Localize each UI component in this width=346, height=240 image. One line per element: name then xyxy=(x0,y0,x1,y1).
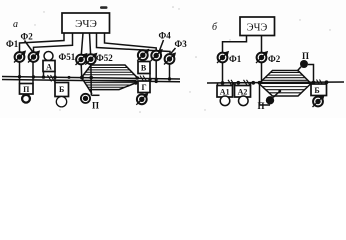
box A xyxy=(43,61,55,72)
svg-text:А: А xyxy=(46,63,52,72)
wire A box left wall to axis xyxy=(43,72,45,78)
svg-text:Ф51: Ф51 xyxy=(59,52,76,62)
photodetector F1 xyxy=(14,50,26,62)
scan speckle noise xyxy=(34,6,330,113)
connector ticks between V and G boxes xyxy=(140,76,147,83)
wire F52 down through mixer to lamp P xyxy=(90,64,92,95)
indicator ring under P box xyxy=(22,95,30,103)
svg-text:Ф2: Ф2 xyxy=(268,54,281,64)
box B (figure b) xyxy=(311,84,327,96)
wire leg4 to F52 xyxy=(90,33,91,55)
block ЭЧЭ (figure a) xyxy=(62,13,110,33)
wire leg2 to F2 xyxy=(34,33,73,52)
connector ticks on axis before B (figure b) xyxy=(317,80,324,86)
lamp P top (figure b) xyxy=(300,60,308,68)
svg-text:П: П xyxy=(92,101,99,111)
wire P box walls to axis xyxy=(19,62,21,84)
indicator detector under box B (figure b) xyxy=(313,95,325,107)
pointer from F4 label xyxy=(160,40,164,51)
junction dot on mixer bottom edge (figure b) xyxy=(278,90,281,93)
box B (figure a) xyxy=(55,83,69,97)
wire leg to F1 (figure b) xyxy=(223,36,247,53)
connector ticks on axis between A and B boxes xyxy=(48,75,55,82)
indicator circle of box A xyxy=(44,52,53,61)
optical axis (figure b) xyxy=(207,82,344,83)
svg-text:Ф1: Ф1 xyxy=(229,54,242,64)
wire F4 down to axis xyxy=(155,60,157,81)
mixer bundle (figure b) xyxy=(259,71,311,97)
wire leg5 to F3 xyxy=(97,33,171,55)
svg-text:П: П xyxy=(258,101,265,111)
svg-text:П: П xyxy=(23,85,30,94)
indicator circle under A2 xyxy=(239,96,249,106)
box P (figure a) xyxy=(20,84,34,95)
photodetector F3 xyxy=(164,52,176,64)
indicator detector under box G xyxy=(136,93,148,105)
box A1 (figure b) xyxy=(217,86,233,98)
photodetector F4 xyxy=(151,49,163,61)
wire lamp P bottom to mixer bottom edge xyxy=(273,92,280,98)
photodetector F51 xyxy=(76,53,88,65)
pointer from F2 label xyxy=(25,41,33,52)
svg-text:Ф52: Ф52 xyxy=(96,53,113,63)
box G (figure a) xyxy=(138,81,150,93)
svg-text:Б: Б xyxy=(59,85,64,94)
lamp P bottom (figure b) xyxy=(266,96,274,104)
wire V box right wall to axis xyxy=(149,74,151,80)
wire leg6 to F4 xyxy=(105,33,157,51)
wire lamp P top to axis xyxy=(308,65,314,83)
svg-text:Ф1: Ф1 xyxy=(6,39,19,49)
optical axis upper line (figure a) xyxy=(2,77,180,80)
wire A1 wall stubs to axis xyxy=(217,83,219,86)
svg-text:Ф2: Ф2 xyxy=(21,32,34,42)
scan smudge artifact xyxy=(100,6,108,9)
wire axis down to lamp P bottom xyxy=(260,84,271,106)
wire leg1 to F1 xyxy=(20,33,65,52)
svg-text:А1: А1 xyxy=(220,88,230,97)
indicator detector above box V xyxy=(137,49,149,61)
pointer from F3 label xyxy=(171,48,176,53)
svg-text:В: В xyxy=(141,63,147,72)
svg-text:Г: Г xyxy=(141,83,146,92)
indicator circle under A1 xyxy=(220,96,230,106)
block ЭЧЭ (figure b) xyxy=(240,17,275,36)
svg-text:ЭЧЭ: ЭЧЭ xyxy=(75,18,97,30)
wire F3 down to axis xyxy=(169,64,171,79)
junction dots on axis (figure a) xyxy=(18,75,21,78)
wire A box right wall down to B box xyxy=(54,72,56,83)
wire from F52 line to P label corner xyxy=(91,94,99,96)
indicator circle under B box xyxy=(56,97,66,107)
svg-text:Ф3: Ф3 xyxy=(175,39,188,49)
svg-text:Б: Б xyxy=(314,86,319,95)
wire leg3 to F51 xyxy=(81,33,83,55)
wire leg to F2 (figure b) xyxy=(261,36,263,53)
wire lamp P top to mixer edge xyxy=(297,67,301,72)
lamp P under mixer xyxy=(81,94,90,103)
photodetector F52 xyxy=(85,53,97,65)
box V (figure a) xyxy=(138,62,150,74)
wire F1 down to axis xyxy=(222,62,224,83)
photodetector F2 (figure b) xyxy=(256,51,268,63)
mixer bundle (figure a) xyxy=(82,65,138,94)
photodetector F2 xyxy=(28,50,40,62)
photodetector F1 (figure b) xyxy=(217,51,229,63)
wire F51 down to mixer tip xyxy=(80,64,83,77)
svg-text:А2: А2 xyxy=(238,88,248,97)
box A2 (figure b) xyxy=(235,86,251,98)
wire F2 down to axis xyxy=(261,62,263,83)
svg-text:П: П xyxy=(302,51,309,61)
svg-text:Ф4: Ф4 xyxy=(159,31,172,41)
svg-text:ЭЧЭ: ЭЧЭ xyxy=(247,23,268,34)
connector ticks on axis after A2 xyxy=(228,80,250,86)
junction dots on axis (figure b) xyxy=(221,81,225,85)
svg-text:а: а xyxy=(13,19,18,30)
optical axis lower line (figure a) xyxy=(2,80,180,82)
